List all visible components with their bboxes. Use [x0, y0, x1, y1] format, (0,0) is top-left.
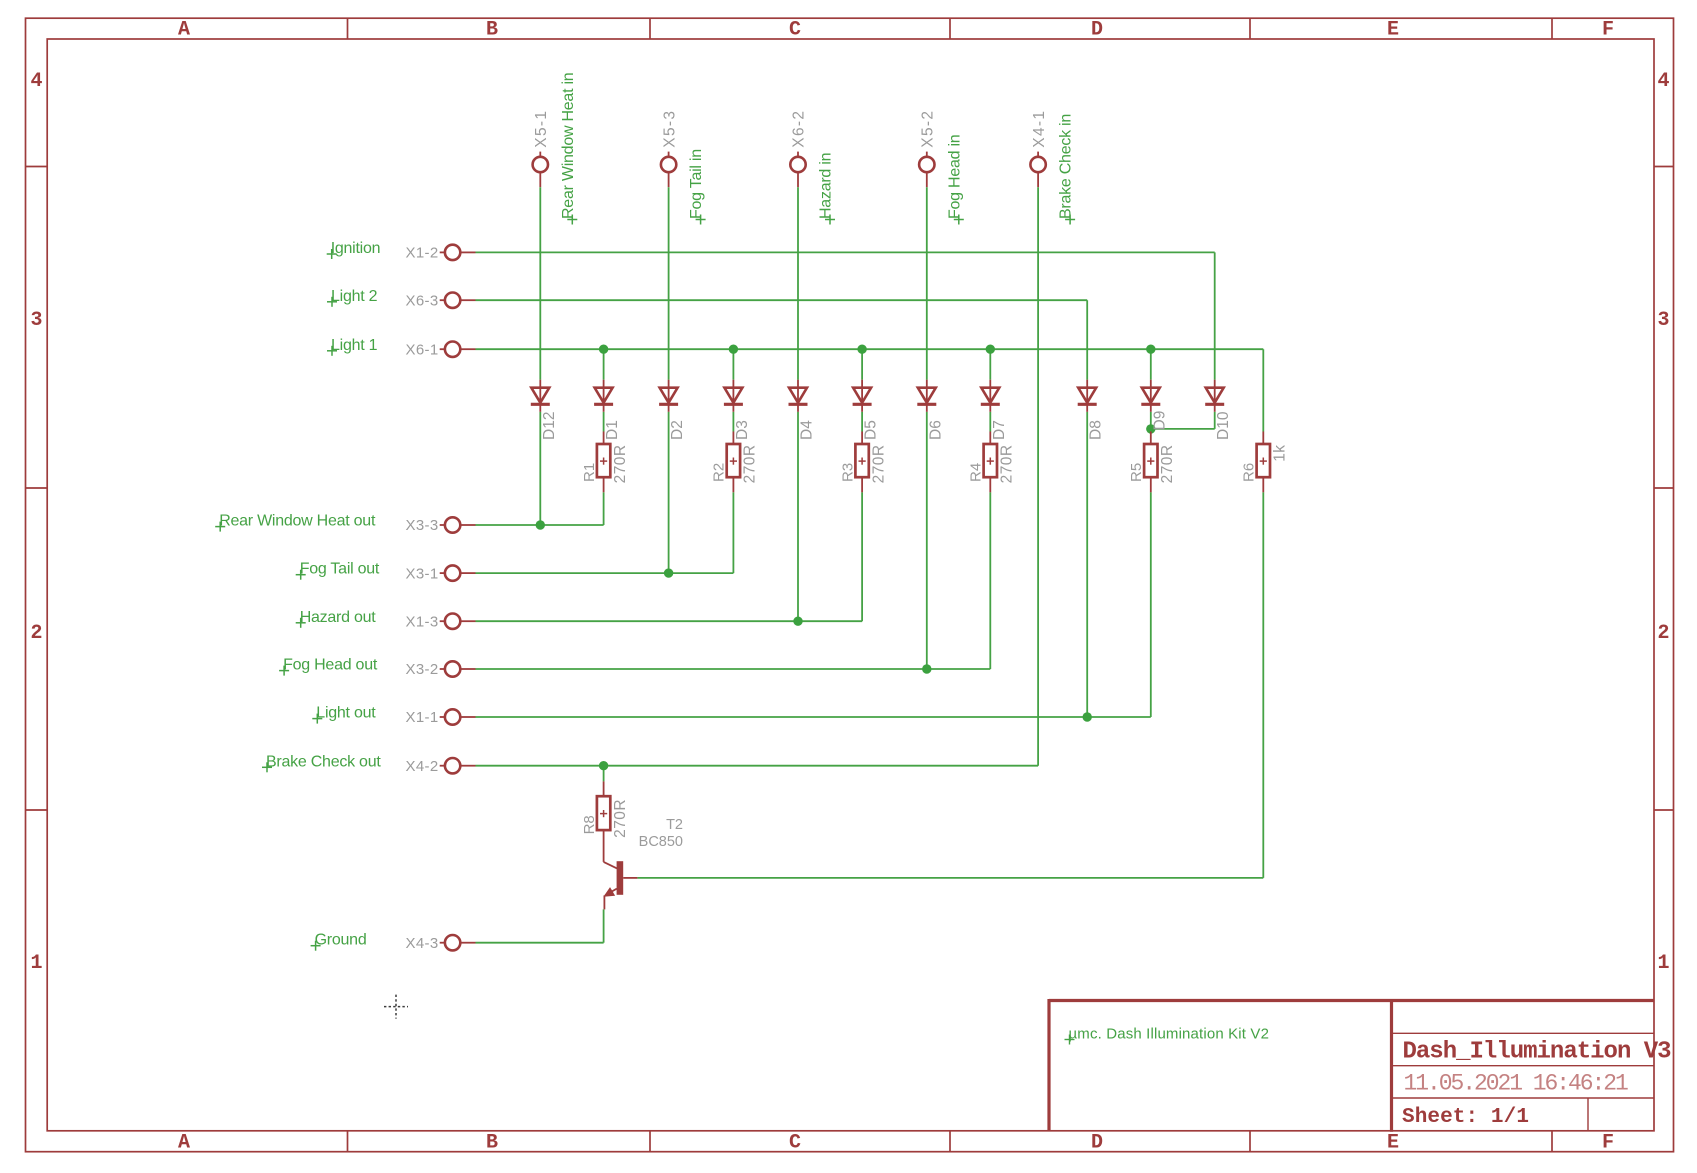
connector pin X3-3: [440, 517, 476, 532]
net label Brake Check out: [262, 753, 381, 772]
title block outline: [1049, 999, 1654, 1132]
connector pin X6-3: [440, 293, 476, 308]
junction D12/RWH out: [536, 520, 545, 529]
svg-text:D8: D8: [1088, 420, 1105, 440]
svg-text:F: F: [1602, 1132, 1614, 1155]
svg-text:Light 2: Light 2: [331, 288, 378, 305]
svg-text:4: 4: [1657, 70, 1669, 93]
svg-text:X6-1: X6-1: [406, 341, 439, 358]
wire Hazard out to R3: [476, 492, 863, 621]
net label Fog Tail out: [296, 561, 380, 580]
net label Hazard in: [818, 153, 836, 225]
resistor value label 270R: [742, 445, 759, 484]
svg-text:1: 1: [1657, 952, 1669, 975]
svg-text:R8: R8: [581, 815, 598, 834]
resistor R2: [727, 432, 740, 493]
resistor value label 270R: [870, 445, 887, 484]
wire D3 to R2: [732, 412, 734, 432]
svg-text:X1-2: X1-2: [406, 245, 439, 262]
svg-text:X6-2: X6-2: [791, 110, 808, 148]
svg-text:Brake Check in: Brake Check in: [1058, 114, 1075, 219]
wire D10 elbow to node A: [1151, 412, 1215, 429]
wire X6-2 down to D4: [797, 187, 799, 380]
connector pin X6-1: [440, 342, 476, 357]
diode D7: [981, 380, 1000, 412]
pin name label X3-3: [406, 517, 439, 534]
pin name label X4-2: [406, 758, 439, 775]
svg-text:C: C: [789, 1132, 801, 1155]
diode name label D4: [799, 420, 816, 440]
pin name label X5-1: [533, 110, 550, 148]
wire node A to R5: [1150, 429, 1152, 432]
resistor name label R1: [581, 463, 598, 482]
junction Light1/D9: [1146, 345, 1155, 354]
wire X4-1 down to Brake Check out: [1037, 187, 1039, 766]
resistor R1: [597, 432, 610, 493]
wire Brake Check out: [476, 765, 1039, 767]
resistor value label 1k: [1272, 445, 1289, 462]
net label Brake Check in: [1058, 114, 1076, 225]
junction D8/Light out: [1083, 712, 1092, 721]
svg-text:2: 2: [30, 622, 42, 645]
transistor value label BC850: [639, 834, 683, 850]
svg-text:R5: R5: [1128, 463, 1145, 482]
title text Dash_Illumination V3: [1403, 1039, 1672, 1066]
svg-text:D5: D5: [863, 420, 880, 440]
wire net Light 2 to D8: [476, 300, 1088, 380]
svg-text:X5-2: X5-2: [920, 110, 937, 148]
svg-text:Hazard in: Hazard in: [818, 153, 835, 219]
diode name label D9: [1151, 411, 1168, 431]
wire Fog Head out to R4: [476, 492, 991, 669]
svg-text:X4-2: X4-2: [406, 758, 439, 775]
wire D9 to node A: [1150, 412, 1152, 429]
svg-text:1: 1: [30, 952, 42, 975]
svg-text:Dash_Illumination V3: Dash_Illumination V3: [1403, 1039, 1672, 1066]
svg-text:270R: 270R: [742, 445, 759, 484]
wire net Ignition to D10: [476, 252, 1215, 379]
pin name label X1-1: [406, 709, 439, 726]
svg-text:Rear Window Heat out: Rear Window Heat out: [219, 513, 376, 530]
svg-text:B: B: [486, 1132, 498, 1155]
diode D1: [594, 380, 613, 412]
svg-text:X3-1: X3-1: [406, 565, 439, 582]
svg-text:Fog Tail in: Fog Tail in: [688, 149, 705, 219]
wire D1 to R1: [603, 412, 605, 432]
diode name label D12: [541, 412, 558, 440]
connector pin X4-3: [440, 935, 476, 950]
diode name label D1: [604, 420, 621, 440]
svg-text:270R: 270R: [612, 799, 629, 838]
svg-text:R2: R2: [711, 463, 728, 482]
svg-text:C: C: [789, 19, 801, 42]
svg-text:270R: 270R: [999, 445, 1016, 484]
net label Rear Window Heat out: [215, 513, 376, 532]
junction R8/Brake Check out: [599, 761, 608, 770]
diode name label D2: [669, 420, 686, 440]
svg-text:X4-3: X4-3: [406, 935, 439, 952]
svg-text:D1: D1: [604, 420, 621, 440]
wire D5 to R3: [861, 412, 863, 432]
svg-text:D3: D3: [734, 420, 751, 440]
svg-text:X3-2: X3-2: [406, 661, 439, 678]
svg-text:Rear Window Heat in: Rear Window Heat in: [560, 73, 577, 219]
wire D4 to Hazard out: [797, 412, 799, 621]
svg-text:4: 4: [30, 70, 42, 93]
transistor T2: [604, 861, 638, 909]
svg-text:F: F: [1602, 19, 1614, 42]
svg-text:A: A: [178, 19, 190, 42]
wire Light 1 to D7: [989, 349, 991, 380]
pin name label X5-3: [661, 110, 678, 148]
net label Fog Head in: [946, 135, 964, 225]
svg-text:D4: D4: [799, 420, 816, 440]
svg-text:D: D: [1091, 1132, 1103, 1155]
pin name label X1-2: [406, 245, 439, 262]
wire collector to R6: [637, 492, 1263, 878]
wire net Light 1 bus to R6: [476, 349, 1264, 431]
svg-text:3: 3: [1657, 309, 1669, 332]
wire Light 1 to D9: [1150, 349, 1152, 380]
svg-text:11.05.2021 16:46:21: 11.05.2021 16:46:21: [1404, 1071, 1629, 1097]
svg-text:X3-3: X3-3: [406, 517, 439, 534]
frame row numbers 1-4: [30, 70, 1669, 975]
pin name label X4-1: [1031, 110, 1048, 148]
svg-text:BC850: BC850: [639, 834, 683, 850]
svg-text:Brake Check out: Brake Check out: [266, 753, 381, 770]
wire Light 1 to D5: [861, 349, 863, 380]
wire D6 to Fog Head out: [926, 412, 928, 669]
wire Light 1 to D1: [603, 349, 605, 380]
connector pin X3-2: [440, 661, 476, 676]
svg-text:µmc. Dash Illumination Kit V2: µmc. Dash Illumination Kit V2: [1069, 1026, 1270, 1043]
svg-text:X4-1: X4-1: [1031, 110, 1048, 148]
net label Fog Tail in: [688, 149, 706, 224]
resistor name label R3: [839, 463, 856, 482]
svg-text:B: B: [486, 19, 498, 42]
resistor value label 270R: [999, 445, 1016, 484]
svg-text:D6: D6: [927, 420, 944, 440]
wire D8 to Light out: [1086, 412, 1088, 717]
pin name label X6-2: [791, 110, 808, 148]
connector pin X1-3: [440, 614, 476, 629]
svg-text:Fog Tail out: Fog Tail out: [300, 561, 380, 578]
svg-text:Ignition: Ignition: [331, 240, 381, 257]
sheet text Sheet: 1/1: [1402, 1106, 1529, 1129]
resistor value label 270R (R8): [612, 799, 629, 838]
svg-text:D10: D10: [1215, 411, 1232, 440]
junction node A D9/D10: [1146, 424, 1155, 433]
connector pin X5-3: [661, 152, 676, 188]
svg-text:D7: D7: [991, 420, 1008, 440]
diode name label D5: [863, 420, 880, 440]
svg-text:A: A: [178, 1132, 190, 1155]
wire D2 to Fog Tail out: [668, 412, 670, 573]
svg-text:R1: R1: [581, 463, 598, 482]
diode D4: [789, 380, 808, 412]
wire Ground to emitter: [476, 909, 604, 942]
svg-text:X1-1: X1-1: [406, 709, 439, 726]
svg-text:D12: D12: [541, 412, 558, 440]
connector pin X4-1: [1030, 152, 1045, 188]
junction Light1/D7: [986, 345, 995, 354]
svg-text:Hazard out: Hazard out: [300, 609, 377, 626]
net label Light 2: [327, 288, 378, 307]
svg-text:Sheet: 1/1: Sheet: 1/1: [1402, 1106, 1529, 1129]
diode D8: [1078, 380, 1097, 412]
connector pin X1-1: [440, 709, 476, 724]
svg-text:X5-3: X5-3: [661, 110, 678, 148]
diode D5: [853, 380, 872, 412]
pin name label X4-3: [406, 935, 439, 952]
connector pin X4-2: [440, 758, 476, 773]
junction D2/Fog Tail out: [664, 568, 673, 577]
pin name label X6-1: [406, 341, 439, 358]
resistor R4: [984, 432, 997, 493]
wire X5-2 down to D6: [926, 187, 928, 380]
svg-text:X6-3: X6-3: [406, 292, 439, 309]
svg-text:2: 2: [1657, 622, 1669, 645]
pin name label X6-3: [406, 292, 439, 309]
diode D10: [1205, 380, 1224, 412]
net label Ignition: [327, 240, 381, 259]
wire Light 1 to D3: [732, 349, 734, 380]
diode name label D8: [1088, 420, 1105, 440]
resistor name label R8: [581, 815, 598, 834]
diode D12: [531, 380, 550, 412]
resistor value label 270R: [1159, 445, 1176, 484]
transistor name label T2: [666, 817, 683, 833]
svg-text:270R: 270R: [870, 445, 887, 484]
svg-text:D2: D2: [669, 420, 686, 440]
svg-text:T2: T2: [666, 817, 683, 833]
svg-text:Fog Head in: Fog Head in: [946, 135, 963, 219]
pin name label X1-3: [406, 613, 439, 630]
resistor R5: [1144, 432, 1157, 493]
sheet origin dashed cross: [384, 995, 408, 1019]
diode name label D10: [1215, 411, 1232, 440]
resistor R8: [597, 781, 610, 862]
wire D7 to R4: [989, 412, 991, 432]
net label Fog Head out: [279, 657, 378, 676]
svg-text:3: 3: [30, 309, 42, 332]
doc text umc. Dash Illumination Kit V2: [1065, 1026, 1270, 1045]
pin name label X3-1: [406, 565, 439, 582]
wire Fog Tail out to R2: [476, 492, 734, 573]
resistor name label R4: [968, 463, 985, 482]
svg-text:Light out: Light out: [316, 705, 376, 722]
diode name label D7: [991, 420, 1008, 440]
svg-text:D9: D9: [1151, 411, 1168, 431]
wire D12 to Rear Window Heat out: [539, 412, 541, 525]
svg-text:E: E: [1387, 19, 1399, 42]
svg-text:Light 1: Light 1: [331, 337, 378, 354]
resistor name label R5: [1128, 463, 1145, 482]
svg-text:R6: R6: [1241, 463, 1258, 482]
diode name label D6: [927, 420, 944, 440]
wire R8 tap: [603, 766, 605, 782]
connector pin X5-2: [919, 152, 934, 188]
resistor R3: [855, 432, 868, 493]
svg-text:D: D: [1091, 19, 1103, 42]
junction Light1/D5: [857, 345, 866, 354]
diode name label D3: [734, 420, 751, 440]
pin name label X3-2: [406, 661, 439, 678]
pin name label X5-2: [920, 110, 937, 148]
connector pin X1-2: [440, 245, 476, 260]
svg-text:R3: R3: [839, 463, 856, 482]
resistor value label 270R: [612, 445, 629, 484]
net label Light 1: [327, 337, 378, 356]
diode D2: [659, 380, 678, 412]
net label Rear Window Heat in: [560, 73, 578, 225]
junction Light1/D1: [599, 345, 608, 354]
svg-text:270R: 270R: [1159, 445, 1176, 484]
svg-text:X1-3: X1-3: [406, 613, 439, 630]
svg-text:X5-1: X5-1: [533, 110, 550, 148]
wire Rear Window Heat out to R1: [476, 492, 604, 525]
diode D6: [917, 380, 936, 412]
diode D3: [724, 380, 743, 412]
wire X5-1 down to D12: [539, 187, 541, 380]
svg-text:R4: R4: [968, 463, 985, 482]
connector pin X3-1: [440, 565, 476, 580]
junction D6/Fog Head out: [922, 664, 931, 673]
svg-text:270R: 270R: [612, 445, 629, 484]
net label Ground: [311, 932, 367, 951]
wire X5-3 down to D2: [668, 187, 670, 380]
resistor name label R2: [711, 463, 728, 482]
svg-text:E: E: [1387, 1132, 1399, 1155]
connector pin X6-2: [790, 152, 805, 188]
net label Light out: [312, 705, 376, 724]
svg-text:1k: 1k: [1272, 445, 1289, 462]
svg-text:Ground: Ground: [315, 932, 367, 949]
diode D9: [1141, 380, 1160, 412]
date text 11.05.2021 16:46:21: [1404, 1071, 1629, 1097]
junction D4/Hazard out: [793, 617, 802, 626]
wire Light out to R5: [476, 492, 1151, 717]
net label Hazard out: [296, 609, 377, 628]
title block inner dividers: [1392, 1033, 1655, 1131]
resistor name label R6: [1241, 463, 1258, 482]
connector pin X5-1: [533, 152, 548, 188]
junction Light1/D3: [729, 345, 738, 354]
resistor R6: [1257, 432, 1270, 493]
svg-text:Fog Head out: Fog Head out: [283, 657, 378, 674]
